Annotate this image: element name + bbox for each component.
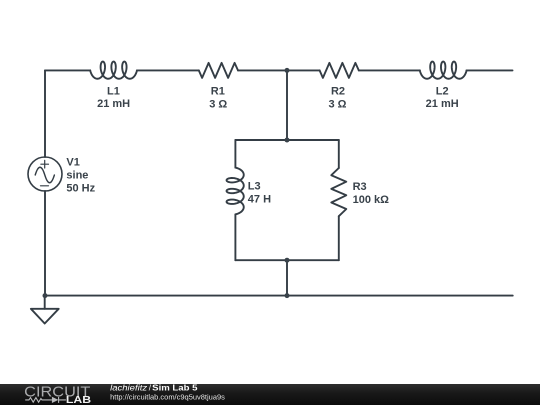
svg-text:50 Hz: 50 Hz — [66, 183, 95, 195]
svg-text:lachiefitz: lachiefitz — [110, 384, 147, 393]
voltage source V1 — [28, 157, 62, 191]
svg-text:21 mH: 21 mH — [426, 98, 459, 110]
wire R1 to node A — [238, 69, 287, 71]
wire top-left horizontal — [45, 69, 90, 71]
svg-text:3 Ω: 3 Ω — [209, 99, 227, 111]
svg-text:Sim Lab 5: Sim Lab 5 — [152, 384, 198, 393]
svg-text:sine: sine — [66, 170, 88, 182]
svg-text:L3: L3 — [248, 181, 261, 193]
wire parallel block right side lower — [338, 216, 340, 260]
wire parallel block left side lower — [234, 215, 236, 261]
wire bottom rail — [45, 295, 513, 297]
node junction ground — [43, 293, 48, 298]
svg-text:L1: L1 — [107, 86, 120, 98]
svg-text:100 kΩ: 100 kΩ — [353, 194, 390, 206]
wire parallel block right side upper — [338, 140, 340, 168]
wire left vertical V1 top — [44, 70, 46, 157]
wire L2 to right end — [467, 69, 513, 71]
svg-text:47 H: 47 H — [248, 193, 271, 205]
wire parallel block top side — [235, 139, 338, 141]
svg-text:R3: R3 — [353, 181, 367, 193]
wire node A down to parallel block — [286, 70, 288, 140]
inductor L2 — [420, 62, 467, 79]
svg-text:R2: R2 — [331, 86, 345, 98]
wire R2 to L2 — [359, 69, 420, 71]
svg-text:LAB: LAB — [66, 395, 91, 405]
resistor R1 — [199, 63, 238, 78]
node junction bottom rail — [285, 293, 290, 298]
footer bar — [0, 384, 540, 405]
resistor R3 — [331, 168, 346, 216]
wire parallel block left side upper — [234, 140, 236, 168]
wire parallel block to bottom rail — [286, 260, 288, 295]
svg-text:R1: R1 — [211, 86, 225, 98]
wire V1 bottom to ground node — [44, 191, 46, 296]
wire parallel block bottom side — [235, 259, 338, 261]
resistor R2 — [320, 63, 359, 78]
svg-text:3 Ω: 3 Ω — [329, 99, 347, 111]
footer author/title — [110, 384, 198, 393]
inductor L3 — [227, 168, 244, 215]
CircuitLab logo icon resistor-diode — [25, 397, 66, 403]
wire L1 to R1 — [137, 69, 199, 71]
node junction top A — [285, 68, 290, 73]
node junction block top — [285, 138, 290, 143]
svg-text:V1: V1 — [66, 156, 79, 168]
svg-text:21 mH: 21 mH — [97, 98, 130, 110]
svg-text:http://circuitlab.com/c9q5uv8t: http://circuitlab.com/c9q5uv8tjua9s — [110, 393, 225, 402]
node junction block bottom — [285, 258, 290, 263]
ground symbol — [31, 309, 59, 324]
wire node A to R2 — [287, 69, 320, 71]
wire ground stem — [44, 296, 46, 309]
inductor L1 — [90, 62, 137, 79]
svg-text:L2: L2 — [436, 86, 449, 98]
